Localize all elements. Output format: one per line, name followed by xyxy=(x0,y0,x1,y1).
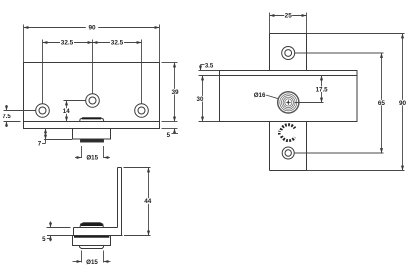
view 1: dimension 7.5 xyxy=(2,105,35,127)
view 1: dimension 5 (plate thickness) xyxy=(162,129,179,139)
svg-text:90: 90 xyxy=(88,25,96,32)
view 1: dimension 32.5 left xyxy=(43,40,93,104)
view 1: center hole xyxy=(86,94,100,108)
view 1: pivot flange xyxy=(73,129,111,140)
view 1: pivot boss xyxy=(80,118,104,122)
svg-text:39: 39 xyxy=(171,89,179,96)
view 1: dimension 39 xyxy=(162,63,180,122)
view 1: pivot cylinder xyxy=(81,139,104,142)
view 1: dimension 14 xyxy=(63,101,86,122)
svg-text:7: 7 xyxy=(38,141,42,148)
svg-text:32.5: 32.5 xyxy=(111,40,124,47)
view 3: dimension 90 xyxy=(307,34,407,171)
view 3: strip top hole xyxy=(282,47,295,60)
view 3: dimension 65 xyxy=(294,53,385,153)
view 3: knurled adjuster wheel xyxy=(279,125,295,141)
view 1: dimension 32.5 right xyxy=(93,40,142,104)
view 2: pivot flange xyxy=(73,236,111,246)
view 3: wall strip xyxy=(270,34,307,171)
view 3: bearing concentric circles xyxy=(278,92,299,113)
view 2: dimension 5 (foot thickness) xyxy=(42,221,72,243)
svg-text:17.5: 17.5 xyxy=(316,86,329,93)
view 1: dimension 7 (flange height) xyxy=(38,129,72,148)
svg-text:5: 5 xyxy=(42,236,46,243)
svg-text:65: 65 xyxy=(378,100,386,107)
view 2: pivot boss xyxy=(80,223,103,228)
view 1: right hole xyxy=(135,104,149,118)
view 3: dimension 3.5 xyxy=(199,64,220,71)
svg-text:Ø15: Ø15 xyxy=(86,155,98,162)
svg-text:Ø15: Ø15 xyxy=(86,259,98,266)
svg-text:30: 30 xyxy=(197,96,204,103)
view 2: dimension 44 xyxy=(124,168,152,236)
svg-text:32.5: 32.5 xyxy=(61,40,74,47)
view 1: plate front view outline xyxy=(24,63,160,129)
svg-text:3.5: 3.5 xyxy=(205,64,214,70)
view 1: dimension 90 xyxy=(24,25,160,63)
view 3: dimension 25 xyxy=(270,13,307,34)
view 3: label diameter 16 with leader xyxy=(254,92,278,99)
svg-text:14: 14 xyxy=(63,108,70,115)
view 2: pivot cylinder xyxy=(80,246,104,249)
svg-text:90: 90 xyxy=(399,100,407,107)
svg-text:25: 25 xyxy=(285,13,293,20)
view 3: strip bottom hole xyxy=(282,147,294,159)
view 3: dimension 30 xyxy=(196,76,219,122)
svg-text:44: 44 xyxy=(144,198,152,205)
svg-text:5: 5 xyxy=(167,132,171,139)
svg-text:Ø16: Ø16 xyxy=(254,92,266,99)
view 2: L-bracket leg xyxy=(118,168,122,236)
view 1: left hole xyxy=(36,104,50,118)
view 2: bracket foot xyxy=(74,228,123,236)
view 2: dimension diameter 15 xyxy=(73,251,111,267)
view 3: plate edge-on rectangle xyxy=(220,71,358,122)
view 3: dimension 17.5 xyxy=(295,76,329,103)
svg-text:7.5: 7.5 xyxy=(2,114,11,120)
view 1: dimension diameter 15 xyxy=(75,146,110,162)
